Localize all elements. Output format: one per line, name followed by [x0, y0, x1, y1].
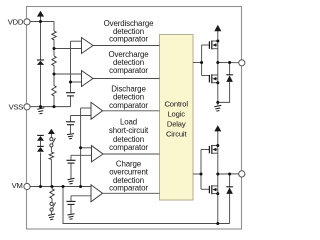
wire U3 lower input drop to C2 — [70, 116, 72, 122]
wire R2 to R3 — [53, 66, 55, 86]
pin VSS terminal — [24, 104, 30, 110]
wire divider chain x=54 — [53, 22, 55, 32]
label load short-circuit comparator — [109, 117, 149, 152]
wire node C to U2 inverting input — [71, 81, 82, 83]
wire diode D4 branch — [229, 63, 231, 75]
wire C4 to ground G4 — [70, 205, 72, 214]
pin VDD terminal — [24, 19, 30, 25]
diode D2 (upper of double diode) — [37, 135, 44, 146]
diode D4 body diode top pair — [226, 75, 233, 82]
wire reference vertical x=70.5 — [70, 41, 72, 92]
wire VM rail — [30, 186, 91, 188]
ground G3 — [68, 178, 75, 184]
node VSS-divider — [53, 105, 56, 108]
node Q4 source — [216, 192, 219, 195]
capacitor C3 — [66, 160, 75, 163]
svg-text:comparator: comparator — [109, 101, 148, 110]
wire U5 lower input drop to C4 — [70, 196, 72, 201]
svg-text:comparator: comparator — [109, 143, 148, 152]
node Q2 source — [216, 81, 219, 84]
wire VSS rail — [30, 106, 71, 108]
pack positive terminal — [239, 60, 245, 66]
label overcharge comparator — [108, 50, 149, 75]
resistor R3 — [52, 86, 56, 97]
label discharge detection comparator — [109, 84, 148, 109]
wire logic box to top gate node — [193, 62, 202, 64]
wire VM sense vertical x=80.6 — [80, 108, 82, 187]
wire VDD clamp branch x=40.5 — [40, 16, 42, 59]
wire gate lead Q1 — [202, 44, 210, 46]
wire top gate bus — [201, 45, 203, 76]
pack negative terminal — [239, 171, 245, 177]
switch SW1 — [50, 138, 56, 147]
node VDD-clamp — [39, 20, 42, 23]
node Q1 drain — [216, 40, 219, 43]
yellow control logic box U6 — [160, 35, 194, 201]
wire U3 output to logic box — [103, 110, 160, 112]
wire Q4 source down to source bus — [217, 193, 219, 224]
diode D1 (VDD clamp) — [37, 60, 44, 65]
transistor Q1 — [209, 40, 217, 49]
outer pack frame — [27, 7, 242, 230]
wire U1 output to logic box — [93, 45, 160, 47]
wire diode D1 to VSS rail — [40, 65, 42, 107]
op-amp U2 overcharge comparator — [82, 71, 94, 87]
wire U5 output to logic box — [103, 192, 160, 194]
svg-text:Control: Control — [164, 99, 188, 108]
node VSS-clamp — [39, 105, 42, 108]
svg-text:VM: VM — [12, 181, 23, 190]
svg-text:Circuit: Circuit — [166, 130, 188, 139]
wire arrow to switch SW1 — [50, 134, 52, 138]
supply arrow at VDD branch — [37, 11, 44, 17]
resistor R5 — [50, 189, 54, 199]
transistor Q3 — [209, 145, 217, 154]
node VM sense U4 tap — [79, 146, 82, 149]
wire U4 lower input — [71, 154, 92, 156]
supply arrow at SW1 branch — [48, 129, 55, 134]
wire gate lead Q3 — [201, 149, 209, 151]
wire top pack node to terminal — [218, 62, 239, 64]
switch SW2 — [50, 202, 56, 211]
resistor R4 — [49, 152, 53, 160]
node D5 tap — [228, 173, 231, 176]
resistor R2 — [52, 56, 56, 66]
wire U5 lower input — [71, 195, 91, 197]
ground G6 — [48, 214, 55, 220]
svg-text:comparator: comparator — [109, 66, 148, 75]
supply arrow above Q1 — [214, 25, 221, 31]
wire D5 anode to source bus — [229, 194, 231, 224]
op-amp U3 discharge detection comparator — [91, 102, 103, 119]
wire SW1 to R4 — [50, 147, 52, 152]
ground G4 — [68, 214, 75, 219]
transistor Q4 — [209, 185, 217, 194]
wire U4 upper input — [81, 147, 92, 149]
capacitor C2 — [66, 122, 75, 125]
node top pack — [216, 61, 219, 64]
wire D4 anode to ground node — [218, 82, 230, 102]
diode D5 body diode bottom pair — [226, 187, 233, 194]
wire reference line to U1 input — [71, 40, 82, 42]
wire double diode branch to VM rail — [40, 152, 42, 186]
node B divider tap 2 — [53, 73, 56, 76]
label charge overcurrent comparator — [109, 159, 149, 192]
wire C1 bottom to VSS rail — [70, 96, 72, 106]
svg-text:comparator: comparator — [109, 35, 148, 44]
node Q3 drain — [216, 144, 219, 147]
wire VM rail to R5 — [51, 187, 53, 189]
svg-text:VSS: VSS — [9, 103, 24, 112]
wire R4 to VM rail — [50, 159, 52, 186]
op-amp U5 charge overcurrent comparator — [91, 185, 103, 202]
wire U4 lower input drop to C3 — [70, 155, 72, 160]
wire C3 to ground G3 — [70, 163, 72, 178]
node top gate — [200, 61, 203, 64]
capacitor C4 — [66, 201, 75, 204]
node ground top pair — [216, 101, 219, 104]
wire SW2 to ground G6 — [51, 211, 53, 214]
wire bottom pack node to terminal — [218, 173, 239, 175]
wire supply arrow stem to Q3 — [217, 131, 219, 146]
label control logic delay circuit — [164, 99, 188, 138]
op-amp U4 load short-circuit comparator — [92, 146, 104, 162]
node bottom gate — [200, 173, 203, 176]
wire VDD to divider top — [30, 21, 54, 23]
svg-text:VDD: VDD — [8, 17, 24, 26]
wire Q2 source to ground node — [217, 82, 219, 105]
wire C2 to ground G2 — [70, 125, 72, 134]
svg-text:short-circuit: short-circuit — [109, 126, 149, 135]
wire U3 lower input — [71, 115, 92, 117]
transistor Q2 — [209, 74, 217, 83]
svg-text:Logic: Logic — [167, 109, 185, 118]
wire R5 to switch SW2 — [51, 198, 53, 202]
wire gate lead Q2 — [202, 75, 210, 77]
op-amp U1 overdischarge comparator — [82, 38, 94, 54]
wire diode D5 branch — [229, 174, 231, 187]
wire logic box to bottom gate node — [193, 173, 201, 175]
wire gate lead Q4 — [201, 188, 209, 190]
node D4 tap — [228, 61, 231, 64]
wire Q1 drain bus down to pack node — [217, 41, 219, 82]
wire node A to comparator U1 inverting input — [54, 48, 82, 50]
wire R3 to VSS rail — [53, 96, 55, 107]
svg-text:Delay: Delay — [167, 120, 186, 129]
wire supply arrow stem to Q1 — [217, 31, 219, 41]
ground G1 — [37, 108, 44, 114]
resistor R1 — [52, 31, 56, 40]
node VM rail taps — [39, 185, 42, 188]
ground G2 — [67, 134, 74, 139]
diode D3 (lower of double diode) — [37, 146, 44, 151]
svg-text:comparator: comparator — [109, 184, 148, 193]
node bottom pack — [216, 173, 219, 176]
capacitor C1 — [66, 93, 75, 96]
node C reference — [69, 81, 72, 84]
wire node B to comparator U2 input — [54, 73, 82, 75]
supply arrow above Q3 — [214, 125, 221, 131]
wire Q3 drain bus — [217, 146, 219, 194]
wire U2 output to logic box — [93, 78, 160, 80]
wire U3 upper input from VM sense line — [81, 107, 91, 109]
node A divider tap 1 — [53, 47, 56, 50]
label overdischarge comparator — [104, 19, 154, 44]
wire bottom gate bus — [200, 150, 202, 190]
node source bus — [216, 222, 219, 225]
ground G5 — [214, 105, 221, 111]
wire U4 output to logic box — [103, 153, 160, 155]
wire VM to FET source bus — [63, 187, 230, 224]
wire R1 to R2 — [53, 40, 55, 56]
pin VM terminal — [24, 183, 30, 189]
